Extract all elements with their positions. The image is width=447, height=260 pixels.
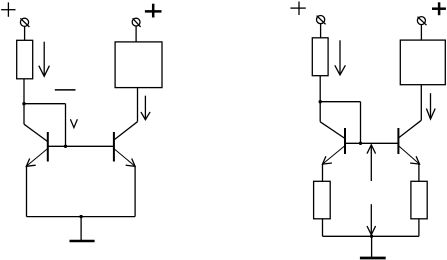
emitter rail wire (27, 216, 136, 218)
wire corner down to base rail (65, 104, 67, 147)
label V (70, 119, 77, 127)
terminal T1 (circle with slash) (20, 18, 29, 27)
terminal T4 (circle with slash) (417, 17, 426, 26)
wire Q3 emitter to R3 (322, 164, 324, 181)
current arrow I1 (down, beside R1) (39, 42, 50, 77)
bold plus sign (left circuit load supply) (145, 4, 162, 18)
node F (junction dot on emitter rail) (370, 235, 373, 238)
wire R3 to emitter rail (322, 219, 324, 237)
transistor Q1 base bar (47, 132, 49, 162)
wire collector of Q1 (diagonal from node leg to bar) (24, 124, 48, 141)
emitter rail wire (right circuit) (323, 235, 419, 237)
plus sign (left circuit V+ label) (1, 2, 15, 16)
wire R1 to node A (23, 79, 25, 124)
wire T1 to R1 (24, 26, 26, 40)
wire T3 to R2 (320, 24, 322, 38)
terminal T3 (circle with slash) (317, 16, 326, 25)
resistor R1 (17, 40, 33, 79)
base rail wire Q1-Q2 (48, 145, 114, 147)
current arrow I2 (down, below box) (141, 96, 150, 120)
minus sign (55, 89, 76, 91)
node D (junction dot) (319, 100, 322, 103)
base current arrow (up, middle) (367, 145, 376, 181)
transistor Q4 emitter (diagonal with arrow) (398, 146, 419, 165)
wire node C to ground (80, 217, 82, 241)
current arrow I3 (down, beside R2) (335, 40, 346, 75)
load box (right circuit) (400, 40, 445, 85)
wire Q4 emitter to R4 (418, 164, 420, 181)
bold plus sign (right circuit load supply) (432, 2, 446, 15)
transistor Q3 emitter (diagonal with arrow) (323, 146, 346, 165)
resistor R4 (411, 181, 427, 219)
terminal T2 (circle with slash) (132, 18, 140, 27)
wire box top to terminal T4 (420, 25, 422, 40)
node C (junction dot on emitter rail) (79, 215, 82, 218)
current arrow I4 (down, below box) (426, 93, 435, 119)
wire node D to corner (diode connection horizontal) (320, 101, 360, 103)
tail current arrow (down, into node F) (367, 204, 376, 235)
node B (junction dot on base rail) (64, 145, 67, 148)
wire collector of Q3 (diagonal) (320, 122, 345, 139)
load box (left circuit) (115, 42, 162, 88)
wire R4 to emitter rail (418, 219, 420, 237)
wire box top to terminal T2 (135, 26, 137, 42)
ground (right circuit) (360, 257, 386, 260)
resistor R3 (314, 181, 331, 219)
transistor Q2 collector (diagonal up-right) (114, 122, 138, 140)
wire corner down to base rail (360, 102, 362, 144)
ground (left circuit) (70, 240, 95, 243)
wire Q2 collector to load box (137, 88, 139, 122)
transistor Q3 base bar (344, 128, 346, 154)
transistor Q4 base bar (397, 128, 399, 154)
wire Q1 emitter down (26, 166, 28, 216)
wire node F to ground (371, 236, 373, 257)
node A (junction dot) (22, 102, 25, 105)
wire Q2 emitter down (134, 166, 136, 216)
resistor R2 (312, 38, 328, 76)
transistor Q1 emitter (diagonal with arrow) (26, 149, 47, 167)
transistor Q2 base bar (113, 132, 115, 162)
node E (junction dot on base rail) (359, 142, 362, 145)
wire node A to corner (diode connection horizontal) (24, 103, 66, 105)
wire Q4 collector to load box (420, 85, 422, 121)
transistor Q2 emitter (diagonal with arrow) (114, 149, 135, 167)
transistor Q4 collector (diagonal up-right) (398, 120, 421, 138)
base rail wire Q3-Q4 (345, 142, 398, 144)
wire R2 to node D (319, 76, 321, 122)
plus sign (right circuit V+ label) (290, 2, 305, 16)
